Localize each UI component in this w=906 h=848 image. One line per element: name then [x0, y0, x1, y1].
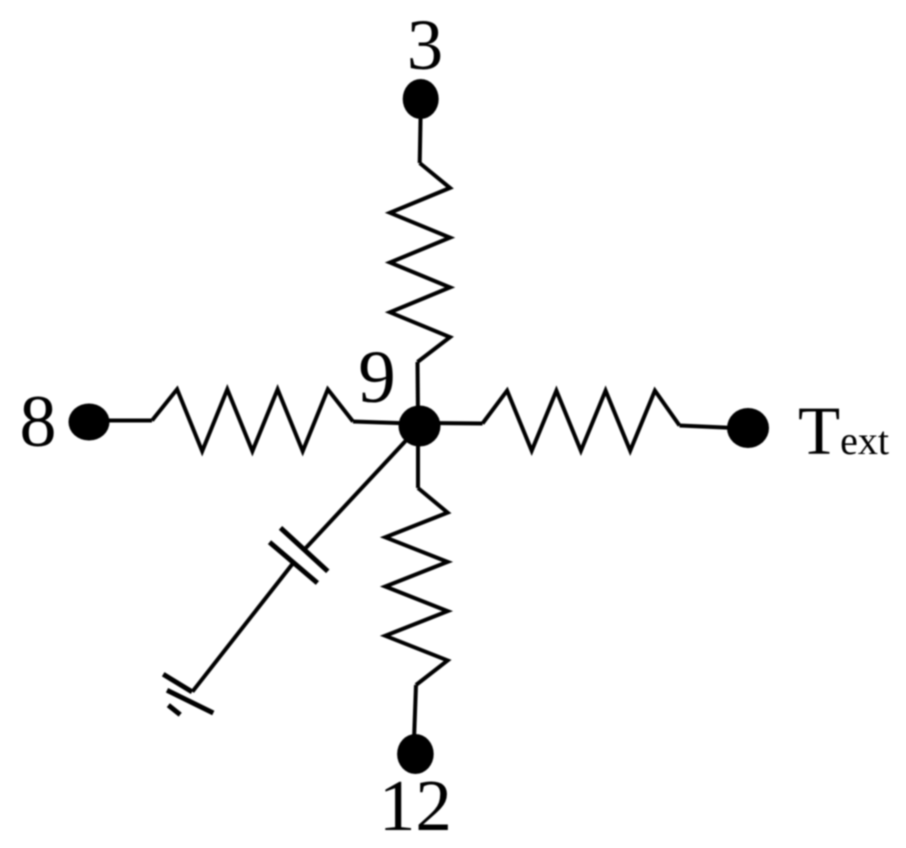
terminal dot node 12 [397, 734, 434, 774]
ground bar 1 [163, 674, 192, 692]
wire resistor Rext right to node Text [680, 426, 736, 429]
resistor Rext (node 9 to node Text, horizontal) [483, 391, 680, 451]
wire node 9 to resistor R12 top [416, 440, 420, 488]
svg-text:9: 9 [358, 336, 396, 419]
terminal dot node 3 [403, 79, 439, 119]
terminal dot node Text [727, 408, 769, 448]
wire resistor R8 right to node 9 [353, 422, 412, 424]
ground bar 2 [167, 690, 213, 713]
svg-text:12: 12 [379, 765, 452, 846]
resistor R3 (node 9 to node 3, vertical) [390, 163, 450, 362]
resistor R12 (node 9 to node 12, vertical) [385, 488, 447, 685]
capacitor C top plate [281, 528, 328, 571]
node 9 junction dot [399, 406, 441, 447]
svg-text:8: 8 [20, 381, 57, 463]
svg-text:Text: Text [798, 393, 889, 469]
wire capacitor bottom plate to ground [192, 563, 293, 692]
wire node8 to resistor R8 left [100, 419, 152, 423]
terminal dot node 8 [69, 404, 110, 441]
resistor R8 (node 8 to node 9, horizontal) [152, 389, 353, 451]
wire node 9 to capacitor top plate [306, 426, 420, 548]
wire node3 to resistor R3 top [420, 110, 421, 163]
wire resistor R3 bottom to node 9 [416, 362, 421, 415]
wire node 9 to resistor Rext left [430, 421, 483, 426]
capacitor C bottom plate [270, 542, 318, 583]
wire resistor R12 bottom to node 12 [414, 685, 416, 740]
svg-text:3: 3 [407, 4, 443, 85]
ground bar 3 [168, 705, 180, 715]
